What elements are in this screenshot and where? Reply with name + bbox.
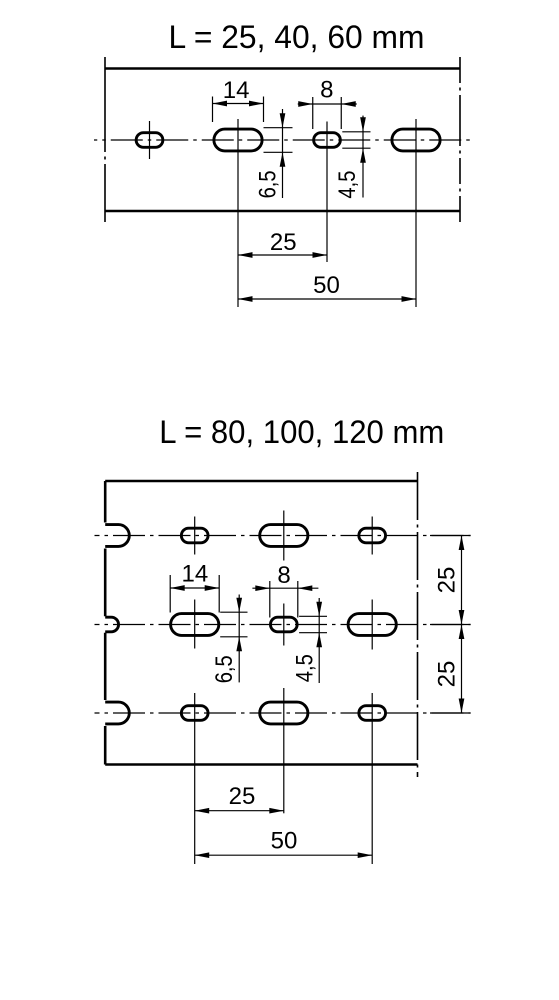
plate bottom edge xyxy=(105,763,417,766)
dim 8: arrowheads (outside) xyxy=(298,101,313,107)
dim 14 bottom: arrowheads xyxy=(170,585,185,591)
dim 25 right upper: arrowheads xyxy=(459,536,465,551)
dim 6,5 bottom: arrowheads (outside) xyxy=(236,598,242,613)
dim 14: dimension line xyxy=(213,103,264,105)
svg-text:50: 50 xyxy=(313,272,340,299)
slot B3 tick xyxy=(371,517,373,555)
dim 8 bottom: dimension line with tails xyxy=(252,587,318,589)
slot A1 (8x4.5) small xyxy=(136,133,163,148)
rail 1 horizontal centerline xyxy=(94,139,471,141)
slot C3 tick xyxy=(371,600,373,650)
slot C2 row2 small xyxy=(270,617,297,632)
dim 50 bottom: arrowheads xyxy=(195,852,210,858)
svg-text:50: 50 xyxy=(271,828,298,855)
dim 6,5: edge extension lines xyxy=(264,127,293,129)
slot A3 center extension line xyxy=(326,122,328,263)
slot A2 (14x6.5) large xyxy=(214,129,262,151)
dim 4,5: arrowheads (outside) xyxy=(360,117,366,132)
slot D1 tick + extension to bottom dims xyxy=(194,693,196,864)
row 2 centerline solid extension to dim xyxy=(430,624,471,626)
slot D2 row3 large xyxy=(260,702,308,724)
slot B3 row1 small xyxy=(359,528,386,543)
slot D3 tick + extension to dim 50 xyxy=(371,693,373,864)
dim 25 right: dimension line xyxy=(461,536,463,714)
slot C3 row2 large xyxy=(348,614,396,636)
rail 1 right cut line (dash-dot) xyxy=(459,57,461,222)
svg-text:4,5: 4,5 xyxy=(292,654,319,682)
svg-text:L = 25, 40, 60 mm: L = 25, 40, 60 mm xyxy=(169,19,425,55)
dim 4,5 bottom: edge extension lines xyxy=(299,615,327,617)
svg-text:25: 25 xyxy=(229,783,256,810)
dim 25: arrowheads xyxy=(238,252,253,258)
svg-text:L = 80, 100, 120 mm: L = 80, 100, 120 mm xyxy=(159,414,444,450)
slot A1 vertical tick xyxy=(149,121,151,159)
dim 50: dimension line xyxy=(238,298,416,300)
slot B2 row1 large xyxy=(260,525,308,547)
slot D1 row3 small xyxy=(181,706,208,721)
rail 1 left cut line (dash-dot) xyxy=(104,57,106,222)
dim 4,5: dimension line xyxy=(362,116,364,198)
svg-text:8: 8 xyxy=(320,77,333,104)
slot D3 row3 small xyxy=(359,706,386,721)
dim 8: extension lines xyxy=(312,97,314,129)
dim 6,5 bottom: edge extension lines xyxy=(220,611,247,613)
dim 25: dimension line xyxy=(238,254,327,256)
slot A2 center extension line xyxy=(237,119,239,307)
svg-text:6,5: 6,5 xyxy=(255,170,282,198)
slot C1 tick xyxy=(194,600,196,649)
dim 14: extension lines xyxy=(212,97,214,123)
row 2 centerline xyxy=(95,624,471,626)
slot C2 tick xyxy=(283,604,285,646)
row 3 centerline solid extension to dim xyxy=(430,712,471,714)
dim 25 right lower: arrowheads xyxy=(459,625,465,640)
svg-text:6,5: 6,5 xyxy=(211,655,238,683)
svg-text:14: 14 xyxy=(223,77,250,104)
slot A4 center extension line xyxy=(415,119,417,307)
svg-text:4,5: 4,5 xyxy=(334,171,361,199)
svg-text:25: 25 xyxy=(434,661,461,688)
dim 8 bottom: arrowheads (outside) xyxy=(255,585,269,591)
dim 8: dimension line with tails xyxy=(298,103,357,105)
dim 8 bottom: extension lines xyxy=(269,581,271,618)
dim 4,5 bottom: arrowheads (outside) xyxy=(316,602,322,617)
plate right cut line (dash-dot) xyxy=(417,472,419,777)
half slot row 3 (large, at cut edge) xyxy=(105,702,129,724)
svg-text:14: 14 xyxy=(182,561,209,588)
svg-text:25: 25 xyxy=(270,229,297,256)
slot B1 tick xyxy=(194,517,196,555)
dim 4,5 bottom: dimension line xyxy=(318,598,320,683)
dim 50 bottom: dimension line xyxy=(195,854,373,856)
svg-text:8: 8 xyxy=(277,562,290,589)
dim 14 bottom: extension lines xyxy=(169,575,171,613)
dim 6,5: arrowheads (outside) xyxy=(280,113,286,128)
rail 1 top edge xyxy=(105,67,460,70)
dim 14 bottom: dimension line xyxy=(170,587,219,589)
half slot row 2 (small, at cut edge) xyxy=(105,617,118,632)
svg-text:25: 25 xyxy=(434,567,461,594)
slot C1 row2 large xyxy=(171,614,219,636)
rail 1 bottom edge xyxy=(105,210,460,213)
slot B1 row1 small xyxy=(181,528,208,543)
row 3 centerline xyxy=(95,712,471,714)
dim 14: arrowheads xyxy=(213,101,228,107)
dim 6,5: dimension line xyxy=(282,109,284,198)
slot B2 tick xyxy=(283,511,285,561)
dim 6,5 bottom: dimension line xyxy=(238,595,240,683)
row 1 centerline xyxy=(95,535,471,537)
plate top edge xyxy=(105,480,417,483)
row 1 centerline solid extension to dim xyxy=(430,535,471,537)
slot A3 (8x4.5) small xyxy=(314,133,341,148)
half slot row 1 (large, at cut edge) xyxy=(105,525,129,547)
slot A4 (14x6.5) large xyxy=(392,129,440,151)
slot D2 tick + extension to dim 25 xyxy=(283,688,285,813)
dim 25 bottom: arrowheads xyxy=(195,808,210,814)
dim 25 bottom: dimension line xyxy=(195,810,284,812)
plate left edge (interrupted by half slots) xyxy=(104,481,107,765)
dim 50: arrowheads xyxy=(238,296,253,302)
dim 4,5: edge extension lines xyxy=(342,131,370,133)
